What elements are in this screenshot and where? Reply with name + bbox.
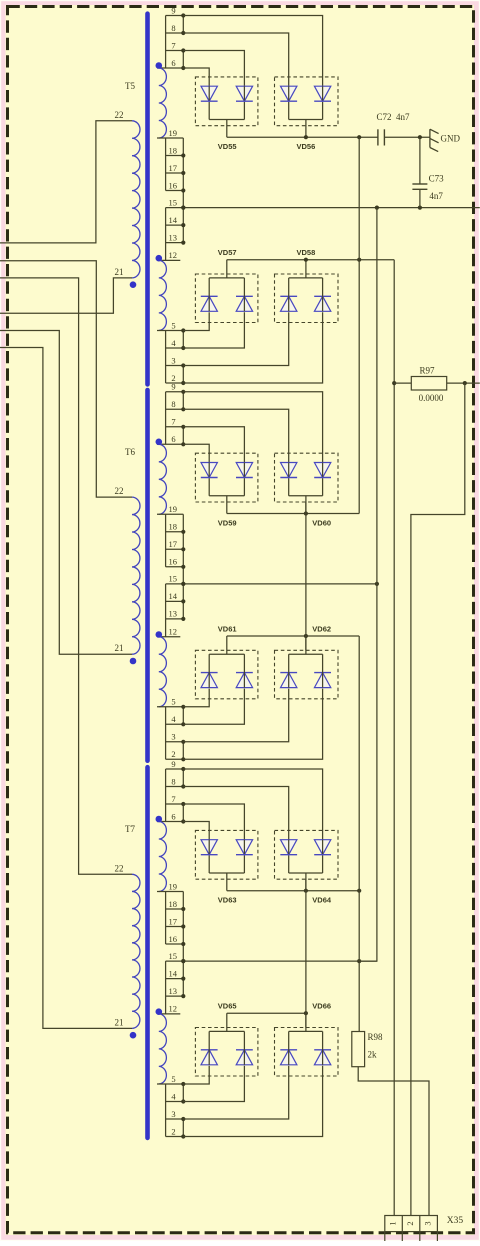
diode pair VD65 diodes xyxy=(201,1013,253,1065)
svg-text:22: 22 xyxy=(115,486,124,496)
capacitor C72 xyxy=(377,129,379,145)
svg-text:VD64: VD64 xyxy=(312,896,332,905)
svg-text:12: 12 xyxy=(169,627,178,637)
svg-text:1: 1 xyxy=(387,1221,397,1225)
svg-text:17: 17 xyxy=(169,163,178,173)
T6 pins 9,8,7,6 stubs and ladder xyxy=(157,382,185,447)
diode pair VD65 (box) xyxy=(195,1028,258,1077)
resistor R98 xyxy=(352,1032,365,1067)
diode pair VD60 (box) xyxy=(275,453,339,502)
diode pair VD64 diodes xyxy=(280,840,331,891)
svg-text:5: 5 xyxy=(171,697,175,707)
T6 upper cathode rail xyxy=(227,513,359,515)
T7 pin15 wire xyxy=(183,960,377,962)
R97 right net: border, drop to X35 pin2 xyxy=(447,382,480,384)
svg-text:9: 9 xyxy=(171,5,175,15)
svg-text:2k: 2k xyxy=(368,1050,378,1060)
wire T6 pin4 to VD61 right diode xyxy=(183,689,244,725)
T6 pins 19,18,17,16 stubs and ladder xyxy=(157,504,185,619)
transformer T7 core xyxy=(145,767,150,1138)
svg-text:0.0000: 0.0000 xyxy=(419,393,444,403)
svg-text:17: 17 xyxy=(169,916,178,926)
wire T7 pin3 to VD66 left diode xyxy=(183,1066,288,1119)
svg-text:GND: GND xyxy=(441,134,461,144)
svg-text:15: 15 xyxy=(169,574,178,584)
svg-text:VD60: VD60 xyxy=(312,518,331,527)
diode pair VD57 (box) xyxy=(195,274,258,323)
T6 lower cathode rail xyxy=(227,635,359,637)
T6 phase dot pin 12 xyxy=(156,631,163,638)
T6 pins 5,4,3,2 stubs and ladder xyxy=(157,697,185,762)
wire T5 pin7 to VD55 right diode xyxy=(183,51,244,87)
svg-text:6: 6 xyxy=(171,58,175,68)
svg-text:X35: X35 xyxy=(447,1216,464,1226)
svg-text:T7: T7 xyxy=(125,824,135,834)
svg-text:14: 14 xyxy=(169,215,178,225)
T6 pin15 wire xyxy=(183,583,377,585)
T6 VD60-VD62 link vertical xyxy=(305,502,307,650)
T7 phase dot pin 6 xyxy=(156,816,163,823)
T7 pins 9,8,7,6 stubs and ladder xyxy=(157,759,185,824)
diode pair VD64 (box) xyxy=(275,830,339,879)
svg-text:13: 13 xyxy=(169,609,178,619)
diode pair VD66 diodes xyxy=(280,1013,331,1065)
svg-text:18: 18 xyxy=(169,899,178,909)
diode pair VD62 diodes xyxy=(280,636,331,688)
svg-text:14: 14 xyxy=(169,968,178,978)
T5 phase dot pin 6 xyxy=(156,62,163,69)
cathode bus T6-T7-R98 (vertical) xyxy=(358,636,360,1032)
diode pair VD60 diodes xyxy=(280,463,331,514)
T7 primary winding 22-21 xyxy=(132,874,140,1028)
svg-text:3: 3 xyxy=(171,732,175,742)
T5 primary phase dot xyxy=(130,281,137,288)
wire T7 pin9 to VD64 right diode xyxy=(183,769,322,840)
svg-text:C72 4n7: C72 4n7 xyxy=(377,112,411,122)
svg-text:22: 22 xyxy=(115,110,124,120)
svg-text:16: 16 xyxy=(169,934,178,944)
bus to R97 left / X35 pin1 xyxy=(393,260,395,1216)
wire left edge to T7 pin21 xyxy=(0,348,132,1029)
svg-text:3: 3 xyxy=(171,1109,175,1119)
cathode bus T5 (vertical) xyxy=(358,137,360,513)
svg-text:VD65: VD65 xyxy=(218,1002,237,1011)
T7 upper cathode rail xyxy=(227,890,359,892)
pin15 bus (vertical) xyxy=(359,208,377,962)
svg-text:3: 3 xyxy=(423,1221,433,1225)
connector X35 xyxy=(385,1216,438,1242)
diode pair VD57 diodes xyxy=(201,260,253,312)
diode pair VD55 diodes xyxy=(201,86,253,137)
svg-text:5: 5 xyxy=(171,1074,175,1084)
T5 pins 9,8,7,6 stubs and ladder xyxy=(157,5,185,70)
wire T6 pin7 to VD59 right diode xyxy=(183,427,244,463)
wire left edge to T6 pin22 xyxy=(0,261,132,497)
transformer T6 core xyxy=(145,390,150,761)
T6 primary winding 22-21 xyxy=(132,497,140,654)
svg-text:2: 2 xyxy=(171,749,175,759)
svg-text:5: 5 xyxy=(171,320,175,330)
diode pair VD63 diodes xyxy=(201,840,253,891)
diode pair VD59 diodes xyxy=(201,463,253,514)
wire T7 pin6 to VD63 left diode xyxy=(183,822,209,840)
T7 pins 5,4,3,2 stubs and ladder xyxy=(157,1074,185,1139)
svg-text:8: 8 xyxy=(171,776,175,786)
svg-text:19: 19 xyxy=(169,881,178,891)
diode pair VD66 (box) xyxy=(275,1028,339,1077)
wire T6 pin3 to VD62 left diode xyxy=(183,689,288,742)
diode pair VD61 (box) xyxy=(195,650,258,699)
svg-text:12: 12 xyxy=(169,250,178,260)
diode pair VD62 (box) xyxy=(275,650,339,699)
T5 upper cathode rail xyxy=(227,136,378,138)
T6 pins 15,14,13,12 stubs and ladder xyxy=(157,574,185,637)
wire T7 pin5 to VD65 left diode xyxy=(183,1066,209,1084)
wire T6 pin6 to VD59 left diode xyxy=(183,444,209,462)
T7 pins 19,18,17,16 stubs and ladder xyxy=(157,881,185,996)
T6 secondary winding 6-19 xyxy=(159,444,167,514)
wire T5 pin5 to VD57 left diode xyxy=(183,312,209,330)
svg-text:T6: T6 xyxy=(125,447,135,457)
svg-text:VD55: VD55 xyxy=(218,142,237,151)
T7 secondary winding 6-19 xyxy=(159,822,167,892)
diode pair VD61 diodes xyxy=(201,636,253,688)
T7 VD64-VD66 link vertical xyxy=(305,879,307,1027)
wire T6 pin8 to VD60 left diode xyxy=(183,409,288,462)
T5 pin15 wire to right border xyxy=(183,207,480,209)
wire C72 to GND xyxy=(384,136,430,138)
svg-text:7: 7 xyxy=(171,417,175,427)
T5 secondary winding 6-19 xyxy=(159,68,167,138)
T5 pins 15,14,13,12 stubs and ladder xyxy=(157,197,185,260)
svg-text:21: 21 xyxy=(115,267,124,277)
svg-text:VD59: VD59 xyxy=(218,518,237,527)
svg-text:R97: R97 xyxy=(419,366,435,376)
svg-text:6: 6 xyxy=(171,811,175,821)
svg-text:19: 19 xyxy=(169,128,178,138)
svg-text:VD66: VD66 xyxy=(312,1002,331,1011)
svg-text:19: 19 xyxy=(169,504,178,514)
T6 secondary winding 12-5 xyxy=(159,637,167,707)
svg-text:16: 16 xyxy=(169,180,178,190)
svg-text:18: 18 xyxy=(169,145,178,155)
T6 phase dot pin 6 xyxy=(156,439,163,446)
T5 pins 19,18,17,16 stubs and ladder xyxy=(157,128,185,243)
svg-text:VD56: VD56 xyxy=(297,142,316,151)
diode pair VD56 (box) xyxy=(275,77,339,126)
wire T5 pin2 to VD58 right diode xyxy=(183,312,322,383)
svg-text:22: 22 xyxy=(115,863,124,873)
wire T5 pin8 to VD56 left diode xyxy=(183,33,288,86)
wire T6 pin9 to VD60 right diode xyxy=(183,392,322,463)
svg-text:12: 12 xyxy=(169,1004,178,1014)
diode pair VD59 (box) xyxy=(195,453,258,502)
svg-text:9: 9 xyxy=(171,382,175,392)
svg-text:7: 7 xyxy=(171,794,175,804)
svg-text:13: 13 xyxy=(169,232,178,242)
svg-text:17: 17 xyxy=(169,539,178,549)
capacitor C73 xyxy=(412,137,427,207)
wire T5 pin6 to VD55 left diode xyxy=(183,68,209,86)
svg-text:8: 8 xyxy=(171,399,175,409)
wire T7 pin2 to VD66 right diode xyxy=(183,1066,322,1137)
svg-text:VD63: VD63 xyxy=(218,896,237,905)
T7 lower cathode rail xyxy=(227,1012,306,1014)
wire T6 pin5 to VD61 left diode xyxy=(183,689,209,707)
diode pair VD58 diodes xyxy=(280,260,331,312)
T7 secondary winding 12-5 xyxy=(159,1014,167,1084)
diode pair VD56 diodes xyxy=(280,86,331,137)
T5 secondary winding 12-5 xyxy=(159,260,167,330)
wire T5 pin9 to VD56 right diode xyxy=(183,16,322,87)
wire left edge to T6 pin21 xyxy=(0,331,132,655)
svg-text:6: 6 xyxy=(171,434,175,444)
T7 pins 15,14,13,12 stubs and ladder xyxy=(157,951,185,1014)
svg-text:T5: T5 xyxy=(125,81,135,91)
T5 pins 5,4,3,2 stubs and ladder xyxy=(157,320,185,385)
wire T7 pin8 to VD64 left diode xyxy=(183,787,288,840)
T5 phase dot pin 12 xyxy=(156,255,163,262)
svg-text:VD61: VD61 xyxy=(218,624,237,633)
wire R98 to X35 pin3 xyxy=(358,1067,429,1216)
svg-text:14: 14 xyxy=(169,591,178,601)
svg-text:3: 3 xyxy=(171,355,175,365)
ground symbol GND xyxy=(430,129,439,151)
wire T7 pin4 to VD65 right diode xyxy=(183,1066,244,1102)
svg-text:9: 9 xyxy=(171,759,175,769)
svg-text:C73: C73 xyxy=(429,174,445,184)
wire T6 pin2 to VD62 right diode xyxy=(183,689,322,760)
T7 phase dot pin 12 xyxy=(156,1008,163,1015)
svg-text:7: 7 xyxy=(171,40,175,50)
svg-text:4n7: 4n7 xyxy=(429,191,443,201)
svg-text:VD58: VD58 xyxy=(297,248,316,257)
svg-text:2: 2 xyxy=(405,1221,415,1225)
diode pair VD58 (box) xyxy=(275,274,339,323)
wire left edge to T7 pin22 xyxy=(0,278,132,874)
wire T5 pin4 to VD57 right diode xyxy=(183,312,244,348)
svg-text:VD62: VD62 xyxy=(312,624,331,633)
wire T5 pin3 to VD58 left diode xyxy=(183,312,288,365)
svg-text:21: 21 xyxy=(115,1017,124,1027)
resistor R97 xyxy=(394,382,411,384)
svg-text:13: 13 xyxy=(169,986,178,996)
wire T5 pin21 to left edge xyxy=(0,278,132,313)
T5 lower cathode rail xyxy=(227,259,394,261)
svg-text:VD57: VD57 xyxy=(218,248,237,257)
svg-text:18: 18 xyxy=(169,522,178,532)
svg-text:16: 16 xyxy=(169,557,178,567)
svg-text:15: 15 xyxy=(169,951,178,961)
transformer T5 core xyxy=(145,14,150,385)
diode pair VD55 (box) xyxy=(195,77,258,126)
svg-text:R98: R98 xyxy=(368,1032,384,1042)
svg-text:15: 15 xyxy=(169,197,178,207)
svg-text:8: 8 xyxy=(171,23,175,33)
svg-text:2: 2 xyxy=(171,1126,175,1136)
wire left edge to T5 pin22 xyxy=(0,121,132,243)
T5 primary winding 22-21 xyxy=(132,121,140,278)
wire T7 pin7 to VD63 right diode xyxy=(183,804,244,840)
T7 primary phase dot xyxy=(130,1032,137,1039)
T6 primary phase dot xyxy=(130,658,137,665)
diode pair VD63 (box) xyxy=(195,830,258,879)
svg-text:21: 21 xyxy=(115,643,124,653)
